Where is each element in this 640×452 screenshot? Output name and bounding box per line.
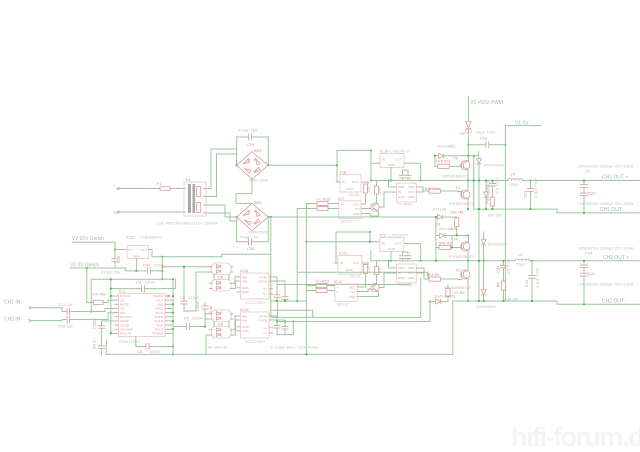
svg-text:C28 1µF: C28 1µF — [58, 324, 74, 329]
diode D8a — [209, 263, 234, 275]
wire T2 drain — [467, 156, 469, 161]
bridge rectifier BR1 — [237, 148, 269, 179]
junction C19 tap — [468, 144, 470, 146]
capacitor C3 — [111, 279, 176, 292]
junction pin1 — [110, 288, 112, 290]
IC1 left pin names — [120, 294, 133, 335]
wire into IC11 — [115, 249, 127, 251]
svg-text:3R3 R1: 3R3 R1 — [426, 272, 440, 277]
svg-text:OUT: OUT — [408, 190, 415, 194]
svg-text:C10: C10 — [247, 142, 255, 147]
junction IC2 in — [369, 241, 371, 243]
wire IC2 gnd — [390, 252, 392, 261]
svg-text:OUT: OUT — [352, 180, 359, 184]
fuse F1 — [157, 181, 172, 190]
op-amp U IC14 UCC27524 — [236, 268, 273, 305]
wire L to fuse — [119, 188, 158, 190]
svg-text:IN: IN — [342, 180, 345, 184]
svg-text:C21: C21 — [588, 271, 596, 276]
capacitor C20 — [578, 191, 634, 213]
svg-text:1nF Folie: 1nF Folie — [495, 177, 500, 194]
wire bundle y272.2 — [297, 272, 428, 279]
wire bundle y203.5 — [306, 203, 317, 205]
wire T3 drain — [467, 181, 469, 191]
svg-text:470µF 25V: 470µF 25V — [101, 270, 121, 275]
op-amp U TC4420 CH2 — [392, 264, 420, 287]
svg-text:VDD: VDD — [408, 266, 415, 270]
svg-text:T2: T2 — [453, 156, 458, 161]
wire 6N137-2 vcc up — [361, 280, 365, 288]
wire caps top tie 2 — [403, 251, 409, 253]
svg-text:100000/10x 3300µF 25V 3.82A: 100000/10x 3300µF 25V 3.82A — [578, 201, 634, 206]
junction C6 top — [183, 266, 185, 268]
svg-text:C6: C6 — [180, 295, 186, 300]
svg-text:GND: GND — [388, 247, 396, 251]
diode D7 lower freewheel — [484, 179, 491, 209]
wire C6 bottom hook — [184, 272, 196, 311]
junction BR2 plus branch — [270, 216, 272, 218]
wire IC10 gnd — [390, 168, 392, 181]
svg-text:C19: C19 — [480, 136, 488, 141]
wire riser to CH2 out minus — [452, 301, 454, 354]
resistor R6 — [496, 281, 519, 301]
junction at C16 top — [114, 249, 116, 251]
junctions on bus — [172, 295, 174, 355]
svg-text:VCC: VCC — [349, 286, 356, 290]
svg-text:3,9µF Folie: 3,9µF Folie — [535, 267, 540, 288]
svg-text:IPP60R380CP: IPP60R380CP — [449, 201, 475, 206]
svg-text:C3: C3 — [136, 280, 142, 285]
wire caps top tie — [403, 169, 409, 171]
svg-text:C25: C25 — [485, 184, 490, 192]
wire CH1 OUT plus rail — [522, 180, 640, 182]
op-amp U IC12 6N137 — [331, 279, 361, 307]
svg-text:GND: GND — [353, 212, 361, 216]
svg-text:C5: C5 — [137, 349, 143, 354]
wire IC11 gnd — [136, 259, 138, 271]
diode D3 — [432, 206, 457, 226]
bridge rectifier BR2 — [237, 200, 269, 231]
resistor R24 — [306, 289, 334, 293]
wire secondary pin3 to BR2 — [207, 205, 237, 217]
svg-text:INB: INB — [242, 319, 247, 323]
svg-text:10R 5W: 10R 5W — [487, 212, 502, 217]
capacitor C26 — [399, 252, 406, 261]
svg-text:100nF: 100nF — [149, 349, 161, 354]
transistor T4 — [453, 237, 470, 251]
svg-text:IC10: IC10 — [380, 149, 389, 154]
capacitor C17 — [58, 302, 74, 315]
wire 6N137 vcc up — [364, 199, 367, 204]
svg-text:TPA3125D2: TPA3125D2 — [119, 339, 141, 344]
wire down into IC10 input — [371, 150, 376, 163]
svg-text:GND: GND — [398, 195, 406, 199]
svg-text:T3: T3 — [455, 185, 460, 190]
svg-text:3n: 3n — [92, 339, 97, 343]
diode D9b — [209, 322, 234, 339]
resistor R16 — [424, 186, 462, 193]
svg-text:IN: IN — [382, 242, 385, 246]
svg-text:VDD: VDD — [408, 185, 415, 189]
svg-text:L7812ACV: L7812ACV — [389, 233, 409, 238]
wire D9a left jog — [205, 313, 209, 315]
svg-text:C47: C47 — [143, 263, 151, 268]
wire TC4420-2 vdd right — [420, 268, 424, 273]
diode D9a — [209, 310, 234, 322]
svg-text:T4: T4 — [453, 237, 458, 242]
connector arrow N — [117, 211, 120, 214]
junction C13 bottom — [530, 208, 532, 210]
junction x91.3 — [90, 311, 92, 313]
svg-text:100000/10x 3300µF 25V 3.82A: 100000/10x 3300µF 25V 3.82A — [578, 282, 634, 287]
op-amp U IC11 regulator — [126, 235, 162, 259]
wire V1 0V — [505, 126, 541, 145]
connector arrow CH1 in — [29, 306, 32, 309]
wire CH2 OUT minus rail — [453, 301, 640, 304]
op-amp U TC4420 CH1 — [392, 183, 420, 206]
junction out minus x479 — [478, 208, 480, 210]
svg-text:10K: 10K — [377, 187, 382, 194]
capacitor C36 — [237, 217, 269, 251]
svg-text:IN: IN — [129, 248, 132, 252]
capacitor C27 — [405, 252, 412, 261]
svg-text:GND: GND — [346, 268, 354, 272]
svg-text:10K: 10K — [377, 267, 382, 274]
svg-text:V+: V+ — [263, 326, 267, 330]
svg-text:10K: 10K — [366, 266, 371, 273]
wire BR1 minus down — [236, 179, 252, 203]
junction C12 bottom — [531, 300, 533, 302]
svg-text:C9: C9 — [92, 343, 97, 349]
wire down from IC21 feed — [370, 251, 372, 261]
svg-text:C14: C14 — [585, 251, 593, 256]
wire N to Tr1 — [119, 211, 185, 213]
capacitor C31 — [273, 281, 289, 301]
wire bundle y310.2 — [271, 310, 313, 317]
wire TC4420 vdd up — [389, 181, 393, 188]
wire bundle y241.8 to IC2 — [306, 241, 375, 243]
svg-text:IC11: IC11 — [126, 235, 135, 240]
svg-text:22µF 100V: 22µF 100V — [476, 130, 496, 135]
svg-text:VDD: VDD — [398, 185, 405, 189]
wire C10 right leg — [267, 137, 269, 165]
svg-text:OUTB: OUTB — [258, 319, 267, 323]
transistor T5 — [455, 268, 470, 280]
wire y266.8 to D8a — [162, 266, 211, 268]
junction R6 bottom — [503, 300, 505, 302]
wire secondary pin2 — [207, 154, 237, 197]
wire fuse to Tr1 — [172, 188, 185, 190]
resistor R3 — [87, 292, 115, 305]
wire from junction 371 down — [370, 150, 372, 180]
wire T3 source — [467, 199, 469, 209]
resistor R4 — [446, 285, 465, 296]
svg-text:VCC: VCC — [353, 203, 360, 207]
IC1 right pin stubs — [165, 296, 169, 333]
capacitor C19 — [468, 130, 505, 149]
svg-text:R3: R3 — [100, 292, 106, 297]
resistor R25 — [364, 265, 372, 280]
wire T2 source — [467, 170, 469, 181]
op-amp U IC1 TPA3125D2 — [119, 289, 166, 345]
wire D8 to IC14 — [234, 277, 237, 283]
op-amp U IC10 L7812 — [376, 149, 410, 168]
svg-text:OUT: OUT — [353, 261, 360, 265]
svg-text:GND: GND — [408, 276, 416, 280]
junction C24 top — [503, 260, 505, 262]
svg-text:IPP60R380CP: IPP60R380CP — [442, 173, 468, 178]
svg-text:IDV02960C: IDV02960C — [476, 304, 497, 309]
junction C21 bottom — [583, 303, 585, 305]
junction BR1 right — [267, 164, 269, 166]
wire secondary pin4 to BR2 — [207, 213, 237, 221]
wire IC10 out — [408, 163, 421, 180]
diode D6 top freewheel — [477, 152, 505, 181]
junction D1 bootstrap — [473, 155, 475, 157]
svg-text:C24: C24 — [496, 265, 501, 273]
wire V1 rail lower — [467, 131, 469, 156]
wire cap bottoms tie — [277, 322, 293, 335]
svg-text:PVCCR: PVCCR — [120, 332, 132, 336]
junction R9 bottom — [492, 208, 494, 210]
svg-text:IDV02960C: IDV02960C — [488, 242, 509, 247]
junction T5 source — [467, 300, 469, 302]
junction y266.8 — [162, 266, 164, 268]
svg-text:10R 5W: 10R 5W — [504, 296, 519, 301]
wire transistor2 up — [376, 280, 378, 284]
junction x306.4 ground — [306, 354, 308, 356]
wire D9 to IC13 — [234, 316, 237, 330]
junction D11 phase — [483, 260, 485, 262]
junction freewheel out2 — [478, 260, 480, 262]
resistor R8 — [450, 210, 464, 236]
junction on 0V rail — [161, 278, 163, 280]
svg-text:10K: 10K — [366, 186, 371, 193]
junction C7 right — [204, 326, 206, 328]
inductor L2 — [515, 252, 529, 267]
capacitor C24 snubber 2 — [496, 258, 511, 281]
svg-text:IC14: IC14 — [240, 268, 249, 273]
svg-text:C7: C7 — [184, 316, 190, 321]
resistor R23 — [306, 279, 334, 288]
junction TC4420 vdd — [388, 180, 390, 182]
IC1 right pin names — [152, 294, 164, 335]
svg-text:10K: 10K — [92, 292, 99, 297]
junction IC2 out at rail — [420, 260, 422, 262]
diode D12 lower freewheel 2 — [476, 261, 497, 309]
svg-text:TC4420: TC4420 — [398, 282, 413, 287]
wire bundle vertical x277.6 low — [277, 303, 279, 316]
svg-text:1nF Folie: 1nF Folie — [506, 258, 511, 275]
svg-text:V+: V+ — [263, 292, 267, 296]
svg-text:INB: INB — [242, 280, 247, 284]
junction bootstrap return phase — [435, 260, 437, 262]
wire IC8 out — [365, 182, 368, 184]
svg-text:4x 1N4148: 4x 1N4148 — [208, 345, 228, 350]
wire bottom ground rail — [106, 353, 453, 355]
wire C10 left leg — [236, 137, 238, 165]
svg-text:CH1 OUT +: CH1 OUT + — [602, 175, 628, 181]
wire V2 0V to R3 — [86, 268, 88, 302]
svg-text:IC8: IC8 — [340, 170, 347, 175]
svg-text:R9: R9 — [485, 198, 490, 204]
svg-text:L7812ACV: L7812ACV — [390, 149, 410, 154]
svg-text:C13: C13 — [523, 190, 528, 198]
junction T3 source — [467, 208, 469, 210]
capacitor C12 — [524, 261, 540, 301]
wire TC4420 vdd right — [420, 187, 423, 191]
junction bus top — [172, 278, 174, 280]
wire TC4420-2 vdd up — [389, 261, 393, 268]
svg-text:IC21: IC21 — [339, 251, 348, 256]
junction C14 top — [583, 260, 585, 262]
junction T2 source phase — [467, 180, 469, 182]
svg-text:100nF: 100nF — [195, 300, 200, 312]
svg-text:GND: GND — [398, 276, 406, 280]
svg-text:IN: IN — [398, 271, 401, 275]
transistor T2 — [453, 156, 470, 170]
svg-text:V+: V+ — [263, 331, 267, 335]
svg-text:IC2: IC2 — [380, 233, 387, 238]
wire IC1 right pins to vertical bus — [169, 300, 173, 333]
svg-text:3R3 R16: 3R3 R16 — [424, 186, 441, 191]
op-amp U IC2 L7812 — [376, 233, 409, 252]
svg-text:IDV02960C: IDV02960C — [484, 163, 505, 168]
diode D10 — [430, 293, 456, 304]
wire bundle vertical x306.4 — [305, 204, 307, 355]
svg-text:IC1: IC1 — [119, 289, 126, 294]
wire D5 R2 left tie — [435, 217, 437, 261]
svg-text:V2 16V Gleich: V2 16V Gleich — [72, 236, 104, 242]
svg-text:OUT: OUT — [395, 242, 402, 246]
svg-text:6N137: 6N137 — [337, 302, 350, 307]
junction C47 right — [161, 270, 163, 272]
resistor R26 — [375, 261, 383, 280]
op-amp U IC8 78L05 — [336, 170, 365, 197]
svg-text:1R5 R2: 1R5 R2 — [438, 240, 452, 245]
svg-text:F1: F1 — [157, 181, 162, 186]
resistor R11 — [435, 159, 462, 169]
capacitor C13 — [523, 177, 539, 209]
svg-text:IN: IN — [340, 261, 343, 265]
wire IC21 out — [366, 263, 368, 265]
svg-text:1µ: 1µ — [92, 318, 97, 323]
resistor R18 — [364, 184, 372, 199]
svg-text:D1: D1 — [451, 144, 457, 149]
wire BR1 plus to regulator — [268, 150, 371, 165]
junction C20 bottom — [583, 212, 585, 214]
inductor LF — [508, 172, 522, 187]
wire phase rail start — [371, 180, 508, 182]
wire bundle y317.4 — [271, 278, 421, 317]
transistor T3 — [455, 185, 470, 199]
wire T4 drain up — [467, 236, 469, 243]
transistor Q1 — [371, 203, 379, 211]
wire bundle rail y301 — [271, 300, 307, 302]
svg-text:470µF 25V: 470µF 25V — [238, 128, 258, 133]
junction bootstrap phase — [473, 180, 475, 182]
svg-text:LF: LF — [511, 172, 516, 177]
wire phase to minus jogs — [492, 181, 494, 184]
svg-text:IC12: IC12 — [334, 279, 343, 284]
wire D1 R11 left tie — [434, 156, 436, 167]
wire C17 to LIN — [74, 309, 115, 312]
svg-text:L78L08ACV: L78L08ACV — [140, 235, 162, 240]
svg-text:100nF: 100nF — [144, 280, 156, 285]
svg-text:D8: D8 — [218, 275, 224, 280]
svg-text:GND: GND — [349, 295, 357, 299]
junction R2 wire — [451, 247, 453, 249]
junction C12 tap — [531, 260, 533, 262]
wire riser x429.9 — [429, 302, 431, 322]
no-connect X pin — [168, 295, 171, 298]
svg-text:R23: R23 — [322, 279, 330, 284]
junction C3 left — [110, 278, 112, 280]
svg-text:78L05: 78L05 — [349, 274, 361, 279]
junction BR2 right — [267, 216, 269, 218]
junction D1 V1 rail — [468, 155, 470, 157]
capacitor C33 — [273, 320, 289, 335]
svg-text:D2: D2 — [460, 131, 466, 136]
svg-text:N: N — [114, 210, 117, 215]
wire TC4420-2 in — [379, 273, 392, 288]
svg-text:1R5 R11: 1R5 R11 — [436, 159, 452, 164]
wire BR2 plus down to CH2 — [270, 217, 272, 317]
svg-text:IN: IN — [382, 158, 385, 162]
wire 6N137-2 vo to transistor — [361, 289, 371, 292]
svg-text:hifi-forum.de: hifi-forum.de — [511, 422, 640, 452]
svg-text:GND: GND — [408, 195, 416, 199]
junction IC10 out at rail — [420, 180, 422, 182]
IC1 left pin stubs — [115, 296, 119, 333]
wire C28 to RIN — [74, 313, 115, 320]
junction D5 feed — [435, 216, 437, 218]
wire CH2 OUT plus rail — [529, 260, 640, 262]
junction out minus x486 — [485, 208, 487, 210]
svg-text:10K: 10K — [452, 290, 459, 295]
resistor R9 — [485, 197, 502, 217]
capacitor C5 — [136, 337, 173, 354]
wire transistor emitter — [365, 211, 379, 217]
svg-text:3,9µF Folie: 3,9µF Folie — [533, 177, 538, 198]
svg-text:D9: D9 — [218, 322, 224, 327]
resistor R1 — [426, 272, 462, 281]
svg-text:CH1 IN: CH1 IN — [4, 300, 21, 306]
resistor R19 — [375, 181, 383, 200]
diode D1 — [435, 144, 479, 159]
junction snubber top — [492, 180, 494, 182]
wire secondary pin1 up — [207, 149, 237, 189]
junction at 371,150 — [370, 150, 372, 152]
junction TC4420-2 vdd — [388, 260, 390, 262]
junction D1 tie — [434, 155, 436, 157]
wire left bottom vertical — [105, 340, 107, 354]
svg-text:22µH: 22µH — [516, 262, 526, 267]
junction C13 tap — [530, 180, 532, 182]
capacitor C47 — [137, 263, 166, 275]
wire D5 right down — [451, 236, 453, 248]
capacitor C6 — [180, 267, 200, 311]
svg-text:OUT: OUT — [408, 271, 415, 275]
junction V1 0V corner — [505, 144, 507, 146]
junction V2 0V — [86, 267, 88, 269]
svg-text:GND: GND — [242, 290, 250, 294]
wire IC2 out — [408, 244, 421, 261]
svg-text:220nF: 220nF — [192, 316, 204, 321]
wire down to pin1 — [111, 289, 115, 334]
capacitor C25 snubber — [485, 177, 500, 197]
svg-text:D5: D5 — [452, 226, 458, 231]
